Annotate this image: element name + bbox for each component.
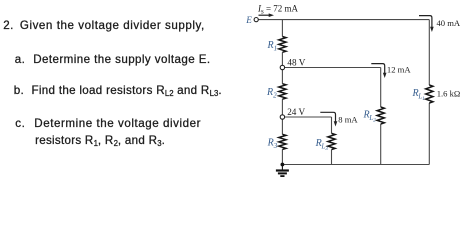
svg-text:40 mA: 40 mA	[437, 18, 461, 28]
wire RL2 branch upper	[380, 68, 382, 108]
wire RL3 branch lower	[331, 150, 333, 165]
svg-text:E: E	[245, 15, 252, 25]
svg-text:12 mA: 12 mA	[387, 65, 411, 75]
svg-text:RL2: RL2	[363, 110, 377, 124]
node 24V	[280, 115, 284, 119]
resistor R1	[279, 37, 286, 53]
wire 48V horizontal	[285, 67, 381, 69]
svg-text:24 V: 24 V	[287, 107, 305, 117]
svg-text:1.6 kΩ: 1.6 kΩ	[437, 88, 461, 98]
wire R1 to 48V node	[281, 52, 283, 65]
svg-text:RL1: RL1	[412, 88, 426, 102]
resistor RL1	[426, 85, 433, 103]
arrow 12 mA	[371, 64, 386, 78]
problem statement line c (2nd line)	[35, 135, 165, 147]
wire 24V node to R3	[281, 119, 283, 134]
wire 24V horizontal	[285, 116, 332, 118]
svg-text:8 mA: 8 mA	[338, 115, 358, 125]
node E terminal	[254, 18, 258, 22]
svg-text:Is = 72 mA: Is = 72 mA	[257, 4, 299, 16]
problem statement line c	[15, 118, 25, 129]
svg-text:R3: R3	[267, 138, 278, 150]
wire right branch upper	[428, 20, 430, 85]
problem statement line b	[14, 85, 24, 96]
wire 48V node to R2	[281, 70, 283, 84]
resistor R2	[279, 84, 286, 99]
svg-text:RL3: RL3	[315, 138, 329, 152]
node 48V	[280, 65, 284, 69]
wire RL2 branch lower	[380, 124, 382, 165]
svg-text:R1: R1	[267, 40, 278, 52]
wire right branch lower	[428, 103, 430, 165]
svg-text:48 V: 48 V	[287, 58, 305, 68]
wire RL3 branch upper	[331, 117, 333, 133]
arrow Is current	[259, 13, 275, 17]
resistor RL3	[328, 133, 335, 149]
problem statement line a	[15, 54, 26, 65]
arrow 8 mA	[320, 112, 337, 126]
ground	[276, 165, 289, 177]
problem statement line 1	[3, 20, 14, 31]
resistor RL2	[377, 107, 384, 124]
wire top rail	[258, 19, 429, 21]
wire main branch E to R1	[281, 20, 283, 37]
wire R2 to 24V node	[281, 99, 283, 115]
wire bottom rail	[282, 164, 429, 166]
resistor R3	[279, 134, 286, 149]
junction dot ground node	[281, 163, 285, 167]
wire R3 to ground junction	[281, 149, 283, 164]
arrow 40 mA	[419, 16, 434, 32]
svg-text:R2: R2	[266, 87, 277, 99]
